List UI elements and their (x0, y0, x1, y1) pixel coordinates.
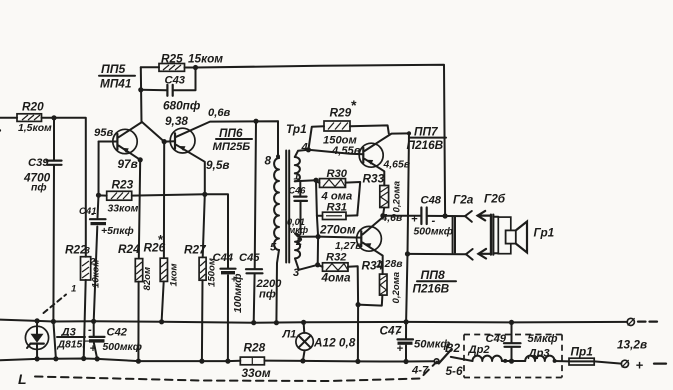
svg-text:Г2б: Г2б (484, 192, 506, 206)
svg-text:5: 5 (270, 242, 277, 254)
svg-text:R24: R24 (118, 242, 140, 256)
svg-text:МП41: МП41 (100, 77, 131, 91)
svg-text:С46: С46 (289, 186, 307, 196)
svg-text:А12 0,8: А12 0,8 (313, 336, 356, 350)
svg-text:9,38: 9,38 (165, 114, 188, 128)
svg-text:5мкф: 5мкф (528, 333, 558, 345)
svg-text:0,2ома: 0,2ома (392, 180, 403, 212)
svg-text:С49: С49 (486, 333, 507, 345)
svg-text:33ом: 33ом (242, 366, 271, 380)
svg-text:82ом: 82ом (142, 267, 153, 291)
svg-text:-: - (432, 215, 436, 227)
svg-text:1,28в: 1,28в (376, 259, 403, 270)
svg-text:4: 4 (301, 142, 309, 154)
svg-text:С44: С44 (213, 252, 234, 264)
svg-text:0,2ома: 0,2ома (391, 271, 402, 303)
svg-text:Др3: Др3 (528, 348, 551, 360)
svg-text:1,27в: 1,27в (335, 241, 362, 252)
svg-text:Д815Г: Д815Г (57, 340, 90, 351)
svg-text:3: 3 (293, 267, 300, 279)
svg-text:П216В: П216В (407, 138, 444, 152)
svg-text:Др2: Др2 (468, 344, 491, 356)
svg-text:+: + (90, 343, 97, 355)
svg-text:1,5ком: 1,5ком (18, 123, 52, 134)
svg-text:R25: R25 (161, 52, 183, 66)
svg-text:МП25Б: МП25Б (213, 141, 251, 153)
svg-text:+: + (397, 343, 404, 355)
svg-text:95в: 95в (94, 127, 113, 139)
svg-text:ПП5: ПП5 (101, 62, 126, 76)
svg-text:*: * (351, 97, 357, 113)
svg-text:R33: R33 (363, 172, 385, 186)
svg-text:-: - (88, 324, 92, 336)
svg-text:С45: С45 (239, 252, 260, 264)
svg-text:1: 1 (71, 284, 76, 295)
svg-text:R20: R20 (22, 100, 44, 114)
svg-text:R27: R27 (184, 243, 207, 257)
svg-text:3: 3 (85, 246, 91, 257)
svg-text:В2: В2 (445, 341, 461, 355)
svg-text:Л1: Л1 (282, 329, 297, 341)
svg-text:ПП7: ПП7 (414, 125, 439, 139)
svg-text:500мкф: 500мкф (103, 341, 142, 353)
svg-text:33ком: 33ком (108, 204, 139, 215)
svg-text:С39: С39 (28, 157, 49, 169)
svg-text:4,55в: 4,55в (331, 145, 361, 157)
svg-text:13,2в: 13,2в (617, 338, 647, 352)
svg-text:-: - (91, 209, 94, 220)
svg-text:мкф: мкф (289, 225, 309, 235)
svg-text:R31: R31 (327, 202, 348, 214)
svg-text:ь: ь (0, 124, 2, 135)
svg-text:+: + (636, 358, 644, 373)
svg-text:-: - (398, 326, 402, 338)
svg-text:2: 2 (295, 236, 303, 248)
svg-text:270ом: 270ом (319, 223, 356, 237)
svg-text:Г2а: Г2а (453, 193, 474, 207)
svg-text:15ком: 15ком (188, 52, 223, 66)
svg-text:10ком: 10ком (91, 260, 102, 289)
svg-text:4ома: 4ома (321, 271, 351, 285)
svg-text:9,5в: 9,5в (206, 158, 230, 172)
svg-text:L: L (18, 371, 27, 387)
svg-text:4,6в: 4,6в (381, 213, 403, 224)
svg-text:R28: R28 (244, 341, 266, 355)
svg-text:С42: С42 (107, 327, 128, 339)
svg-text:+: + (411, 214, 418, 226)
svg-text:5-6: 5-6 (446, 364, 463, 378)
svg-text:R29: R29 (330, 106, 352, 120)
svg-text:пф: пф (259, 289, 276, 301)
svg-text:R23: R23 (112, 178, 134, 192)
svg-text:R30: R30 (327, 168, 348, 180)
svg-text:1ком: 1ком (169, 263, 180, 286)
svg-text:Гр1: Гр1 (534, 226, 555, 240)
svg-text:4-7: 4-7 (411, 365, 429, 377)
svg-text:500мкф: 500мкф (414, 226, 453, 238)
svg-text:0,6в: 0,6в (208, 107, 231, 119)
svg-text:С43: С43 (165, 75, 186, 87)
svg-text:8: 8 (265, 154, 272, 168)
svg-text:680пф: 680пф (163, 99, 201, 113)
svg-text:Пр1: Пр1 (571, 345, 593, 359)
svg-text:+5пкф: +5пкф (101, 225, 134, 237)
svg-text:С48: С48 (421, 195, 442, 207)
svg-text:4,65в: 4,65в (383, 160, 411, 171)
svg-text:пф: пф (31, 182, 47, 194)
svg-text:100мкф: 100мкф (232, 274, 244, 313)
svg-text:R32: R32 (326, 252, 347, 264)
svg-text:ПП8: ПП8 (421, 268, 446, 282)
svg-text:ПП6: ПП6 (219, 126, 243, 140)
svg-text:Тр1: Тр1 (286, 122, 307, 136)
svg-text:97в: 97в (118, 157, 138, 171)
svg-text:П216В: П216В (413, 282, 450, 296)
svg-text:1: 1 (294, 172, 300, 183)
